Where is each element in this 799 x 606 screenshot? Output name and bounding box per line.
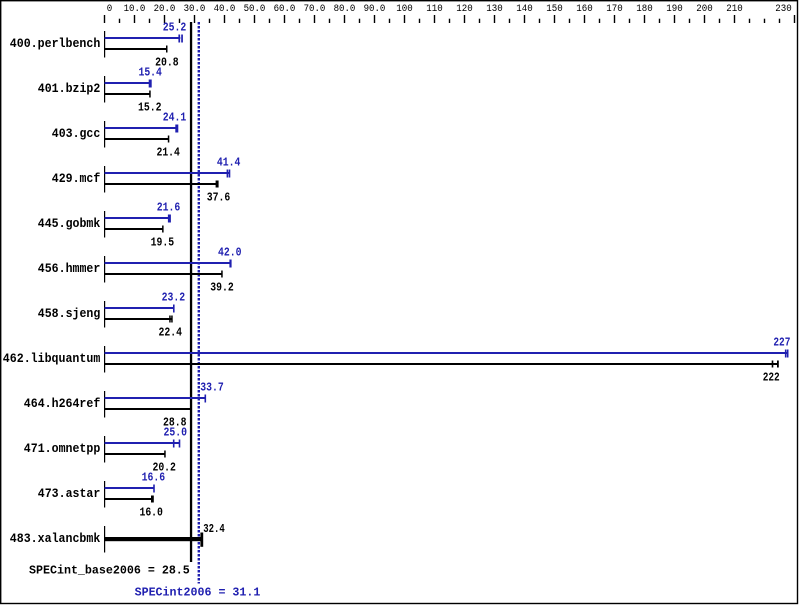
row 464.h264ref — [24, 381, 224, 430]
svg-text:60.0: 60.0 — [274, 4, 296, 15]
row 471.omnetpp — [24, 426, 187, 475]
svg-text:42.0: 42.0 — [218, 246, 242, 260]
svg-text:230: 230 — [775, 4, 791, 15]
svg-text:90.0: 90.0 — [364, 4, 386, 15]
svg-text:33.7: 33.7 — [200, 381, 224, 395]
svg-text:456.hmmer: 456.hmmer — [38, 262, 101, 276]
svg-text:464.h264ref: 464.h264ref — [24, 397, 101, 411]
svg-text:32.4: 32.4 — [203, 522, 225, 536]
svg-text:170: 170 — [606, 4, 622, 15]
svg-text:400.perlbench: 400.perlbench — [10, 37, 101, 51]
svg-text:130: 130 — [486, 4, 502, 15]
svg-text:210: 210 — [726, 4, 742, 15]
dotted peak-mean line 31.1 — [198, 22, 200, 584]
svg-text:483.xalancbmk: 483.xalancbmk — [10, 532, 101, 546]
svg-text:20.0: 20.0 — [154, 4, 176, 15]
svg-text:473.astar: 473.astar — [38, 487, 101, 501]
svg-text:100: 100 — [396, 4, 412, 15]
svg-text:22.4: 22.4 — [159, 326, 183, 340]
svg-text:37.6: 37.6 — [207, 191, 231, 205]
svg-text:41.4: 41.4 — [217, 156, 241, 170]
svg-text:25.0: 25.0 — [164, 426, 188, 440]
svg-text:21.4: 21.4 — [156, 146, 180, 160]
svg-text:227: 227 — [773, 336, 790, 350]
svg-text:403.gcc: 403.gcc — [52, 127, 101, 141]
svg-text:471.omnetpp: 471.omnetpp — [24, 442, 101, 456]
row 429.mcf — [52, 156, 241, 205]
row 445.gobmk — [38, 201, 180, 250]
x axis labels — [107, 4, 792, 15]
solid base-mean line 28.5 — [190, 22, 192, 562]
svg-text:24.1: 24.1 — [163, 111, 187, 125]
svg-text:40.0: 40.0 — [214, 4, 236, 15]
x axis ticks — [104, 15, 795, 23]
svg-text:160: 160 — [576, 4, 592, 15]
svg-text:SPECint_base2006 = 28.5: SPECint_base2006 = 28.5 — [29, 564, 190, 578]
svg-text:39.2: 39.2 — [210, 281, 234, 295]
svg-text:180: 180 — [636, 4, 652, 15]
svg-text:50.0: 50.0 — [244, 4, 266, 15]
svg-text:70.0: 70.0 — [304, 4, 326, 15]
row 483.xalancbmk — [10, 522, 225, 553]
row 462.libquantum — [3, 336, 791, 385]
svg-text:222: 222 — [763, 371, 780, 385]
svg-text:10.0: 10.0 — [124, 4, 146, 15]
svg-text:200: 200 — [696, 4, 712, 15]
svg-text:445.gobmk: 445.gobmk — [38, 217, 101, 231]
svg-text:16.0: 16.0 — [139, 506, 163, 520]
svg-text:SPECint2006 = 31.1: SPECint2006 = 31.1 — [135, 586, 261, 600]
svg-text:19.5: 19.5 — [151, 236, 175, 250]
svg-text:462.libquantum: 462.libquantum — [3, 352, 101, 366]
svg-text:0: 0 — [107, 4, 113, 15]
svg-text:80.0: 80.0 — [334, 4, 356, 15]
svg-text:23.2: 23.2 — [162, 291, 186, 305]
svg-text:190: 190 — [666, 4, 682, 15]
svg-text:401.bzip2: 401.bzip2 — [38, 82, 101, 96]
row 456.hmmer — [38, 246, 242, 295]
svg-text:30.0: 30.0 — [184, 4, 206, 15]
svg-text:150: 150 — [546, 4, 562, 15]
row 458.sjeng — [38, 291, 185, 340]
svg-text:21.6: 21.6 — [157, 201, 181, 215]
svg-text:429.mcf: 429.mcf — [52, 172, 101, 186]
svg-text:16.6: 16.6 — [142, 471, 166, 485]
row 400.perlbench — [10, 21, 187, 70]
svg-text:110: 110 — [426, 4, 442, 15]
row 473.astar — [38, 471, 165, 520]
row 403.gcc — [52, 111, 187, 160]
svg-text:15.4: 15.4 — [138, 66, 162, 80]
row 401.bzip2 — [38, 66, 162, 115]
svg-text:458.sjeng: 458.sjeng — [38, 307, 101, 321]
svg-text:15.2: 15.2 — [138, 101, 162, 115]
svg-text:120: 120 — [456, 4, 472, 15]
svg-text:25.2: 25.2 — [163, 21, 187, 35]
svg-text:140: 140 — [516, 4, 532, 15]
